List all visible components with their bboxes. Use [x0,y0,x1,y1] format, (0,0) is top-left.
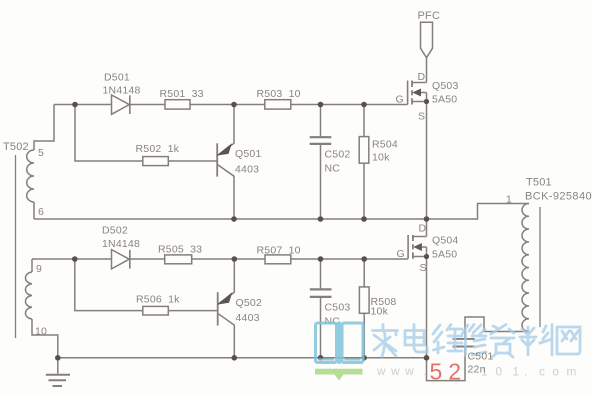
svg-text:C503: C503 [325,302,351,314]
svg-text:R502 1k: R502 1k [136,143,180,155]
char zi [491,325,514,358]
svg-text:R506 1k: R506 1k [136,294,180,306]
svg-text:T501: T501 [526,177,552,189]
svg-text:D: D [418,71,426,83]
node top rail junctions [72,102,78,108]
PFC connector [421,22,433,58]
svg-text:5: 5 [38,147,44,159]
svg-text:S: S [420,262,427,274]
svg-text:R505 33: R505 33 [158,244,202,256]
svg-text:D501: D501 [104,72,130,84]
wire Q504 drain from mid rail [426,219,428,237]
label C501 [468,351,494,376]
node Q504 source stub [424,254,429,259]
wire top rail (node A, y=104.5) [54,104,408,106]
svg-text:Q504: Q504 [432,235,459,247]
wire C501 to T501 pin 3 [465,317,529,338]
mosfet Q503 [408,81,427,105]
svg-text:R503 10: R503 10 [257,88,301,100]
svg-text:C502: C502 [325,149,351,161]
watermark chinese characters [373,325,581,358]
svg-text:T502: T502 [3,141,29,153]
wire Q504 source to ground rail [426,257,428,358]
svg-text:52: 52 [430,359,468,385]
svg-text:1: 1 [506,194,512,206]
resistor R502 [143,157,169,166]
watermark book icon [316,322,364,365]
wire lower rail (node C, y=259) [32,258,408,260]
resistor R505 [165,255,192,264]
diode D501 [112,95,130,114]
svg-text:4403: 4403 [235,164,259,176]
capacitor C501 [453,339,475,347]
T501 core [539,207,541,327]
svg-text:www: www [376,364,419,378]
svg-text:Q502: Q502 [236,297,263,309]
svg-text:Q503: Q503 [432,80,459,92]
node ground rail junctions [55,355,61,361]
svg-text:22n: 22n [468,364,486,376]
wire PFC to Q503 drain [426,58,428,83]
svg-text:9: 9 [36,263,42,275]
svg-text:10k: 10k [371,306,389,318]
char dian [405,325,427,353]
resistor R507 [265,255,291,264]
svg-text:com: com [539,365,584,379]
wire T502 pin 6 riser [33,202,35,219]
wire left corner to T502 pin 5 [34,105,54,151]
ground [46,358,70,386]
mosfet Q504 [408,235,426,259]
wire mid rail (node B, y=219) [34,204,529,220]
svg-text:PFC: PFC [418,10,441,22]
svg-text:D: D [419,223,427,235]
wire base branch to R502 [75,105,217,162]
char wang [557,327,580,354]
svg-text:R501 33: R501 33 [160,88,204,100]
svg-text:1: 1 [513,365,520,379]
transformer T502 winding 9-10 [25,259,57,358]
svg-text:R507 10: R507 10 [257,245,301,257]
transformer T502 winding 5-6 [27,150,34,202]
svg-text:10k: 10k [372,152,390,164]
wire ground rail (y=357.8) [58,357,427,359]
char jia [373,325,398,357]
resistor R504 [359,105,369,220]
svg-text:4403: 4403 [236,312,260,324]
wire Q504 source to C501 lower route [427,348,466,381]
watermark url www [376,364,584,379]
svg-text:5A50: 5A50 [432,249,457,261]
char wei [433,325,462,354]
node lower rail junctions [72,256,78,262]
resistor R508 [359,259,369,358]
node mid rail junctions [231,216,237,222]
svg-text:NC: NC [325,163,341,175]
svg-text:S: S [418,111,425,123]
diode D502 [112,250,130,269]
svg-text:G: G [396,94,404,106]
svg-text:5A50: 5A50 [432,94,457,106]
capacitor C503 [310,259,332,358]
capacitor C502 [310,105,332,220]
watermark [315,322,584,385]
svg-text:1N4148: 1N4148 [103,85,141,97]
svg-text:.: . [424,364,427,378]
svg-text:1N4148: 1N4148 [102,238,140,250]
svg-text:10: 10 [35,326,47,338]
char liao [520,325,552,356]
resistor R506 [143,306,169,315]
svg-text:.: . [524,365,527,379]
T502 core [15,155,17,338]
svg-text:G: G [397,248,405,260]
node Q503 source stub [424,99,429,104]
svg-text:6: 6 [38,206,44,218]
wire Q503 source to mid rail [426,102,428,220]
svg-text:Q501: Q501 [235,148,262,160]
resistor R503 [265,100,291,109]
watermark book base [315,369,363,381]
svg-text:BCK-925840: BCK-925840 [525,191,592,203]
resistor R501 [165,100,190,109]
wire base branch to R506 [75,259,217,311]
char xiu [462,325,486,356]
transistor Q502 [218,259,235,358]
svg-text:C501: C501 [468,351,494,363]
transformer T501 winding [522,204,529,332]
svg-text:R504: R504 [372,139,398,151]
transistor Q501 [217,105,234,220]
svg-text:D502: D502 [102,225,128,237]
